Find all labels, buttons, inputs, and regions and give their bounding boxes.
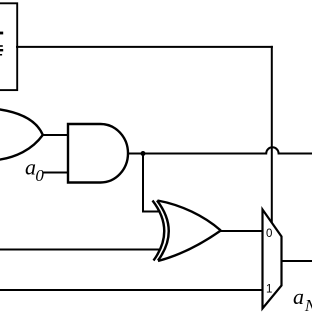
wire: xor input B (from left edge): [0, 249, 161, 251]
wire: junction down to xor input A: [143, 154, 161, 212]
and-gate: [68, 124, 128, 183]
or-gate (cut off at left edge): [0, 109, 43, 160]
svg-text:1: 1: [266, 283, 272, 295]
svg-text:0: 0: [35, 166, 44, 185]
svg-text:N: N: [304, 296, 312, 312]
register box (cut off at left edge): [0, 3, 17, 90]
label a0: [25, 155, 44, 185]
svg-text:a: a: [25, 155, 36, 180]
svg-text:0: 0: [266, 228, 272, 240]
box internal text fragments (cut off): [0, 32, 3, 56]
wire: mux select vertical run: [271, 46, 273, 223]
wire: mux output: [282, 260, 313, 262]
wire: a0 to and-gate input B: [44, 172, 69, 174]
wire: or-gate output to and-gate input A: [42, 134, 68, 136]
label aN (cut off at corner): [293, 284, 318, 312]
wire: mux input 1 (from left edge): [0, 289, 263, 291]
mux (trapezoid): [263, 210, 282, 309]
junction dot: [141, 151, 146, 156]
xor-gate: [153, 201, 221, 262]
svg-text:a: a: [293, 284, 304, 309]
wire: box output to mux select (horizontal run): [16, 46, 273, 48]
wire: and-gate output with hop over select line: [127, 147, 312, 153]
wire: xor output to mux input 0: [220, 230, 263, 232]
